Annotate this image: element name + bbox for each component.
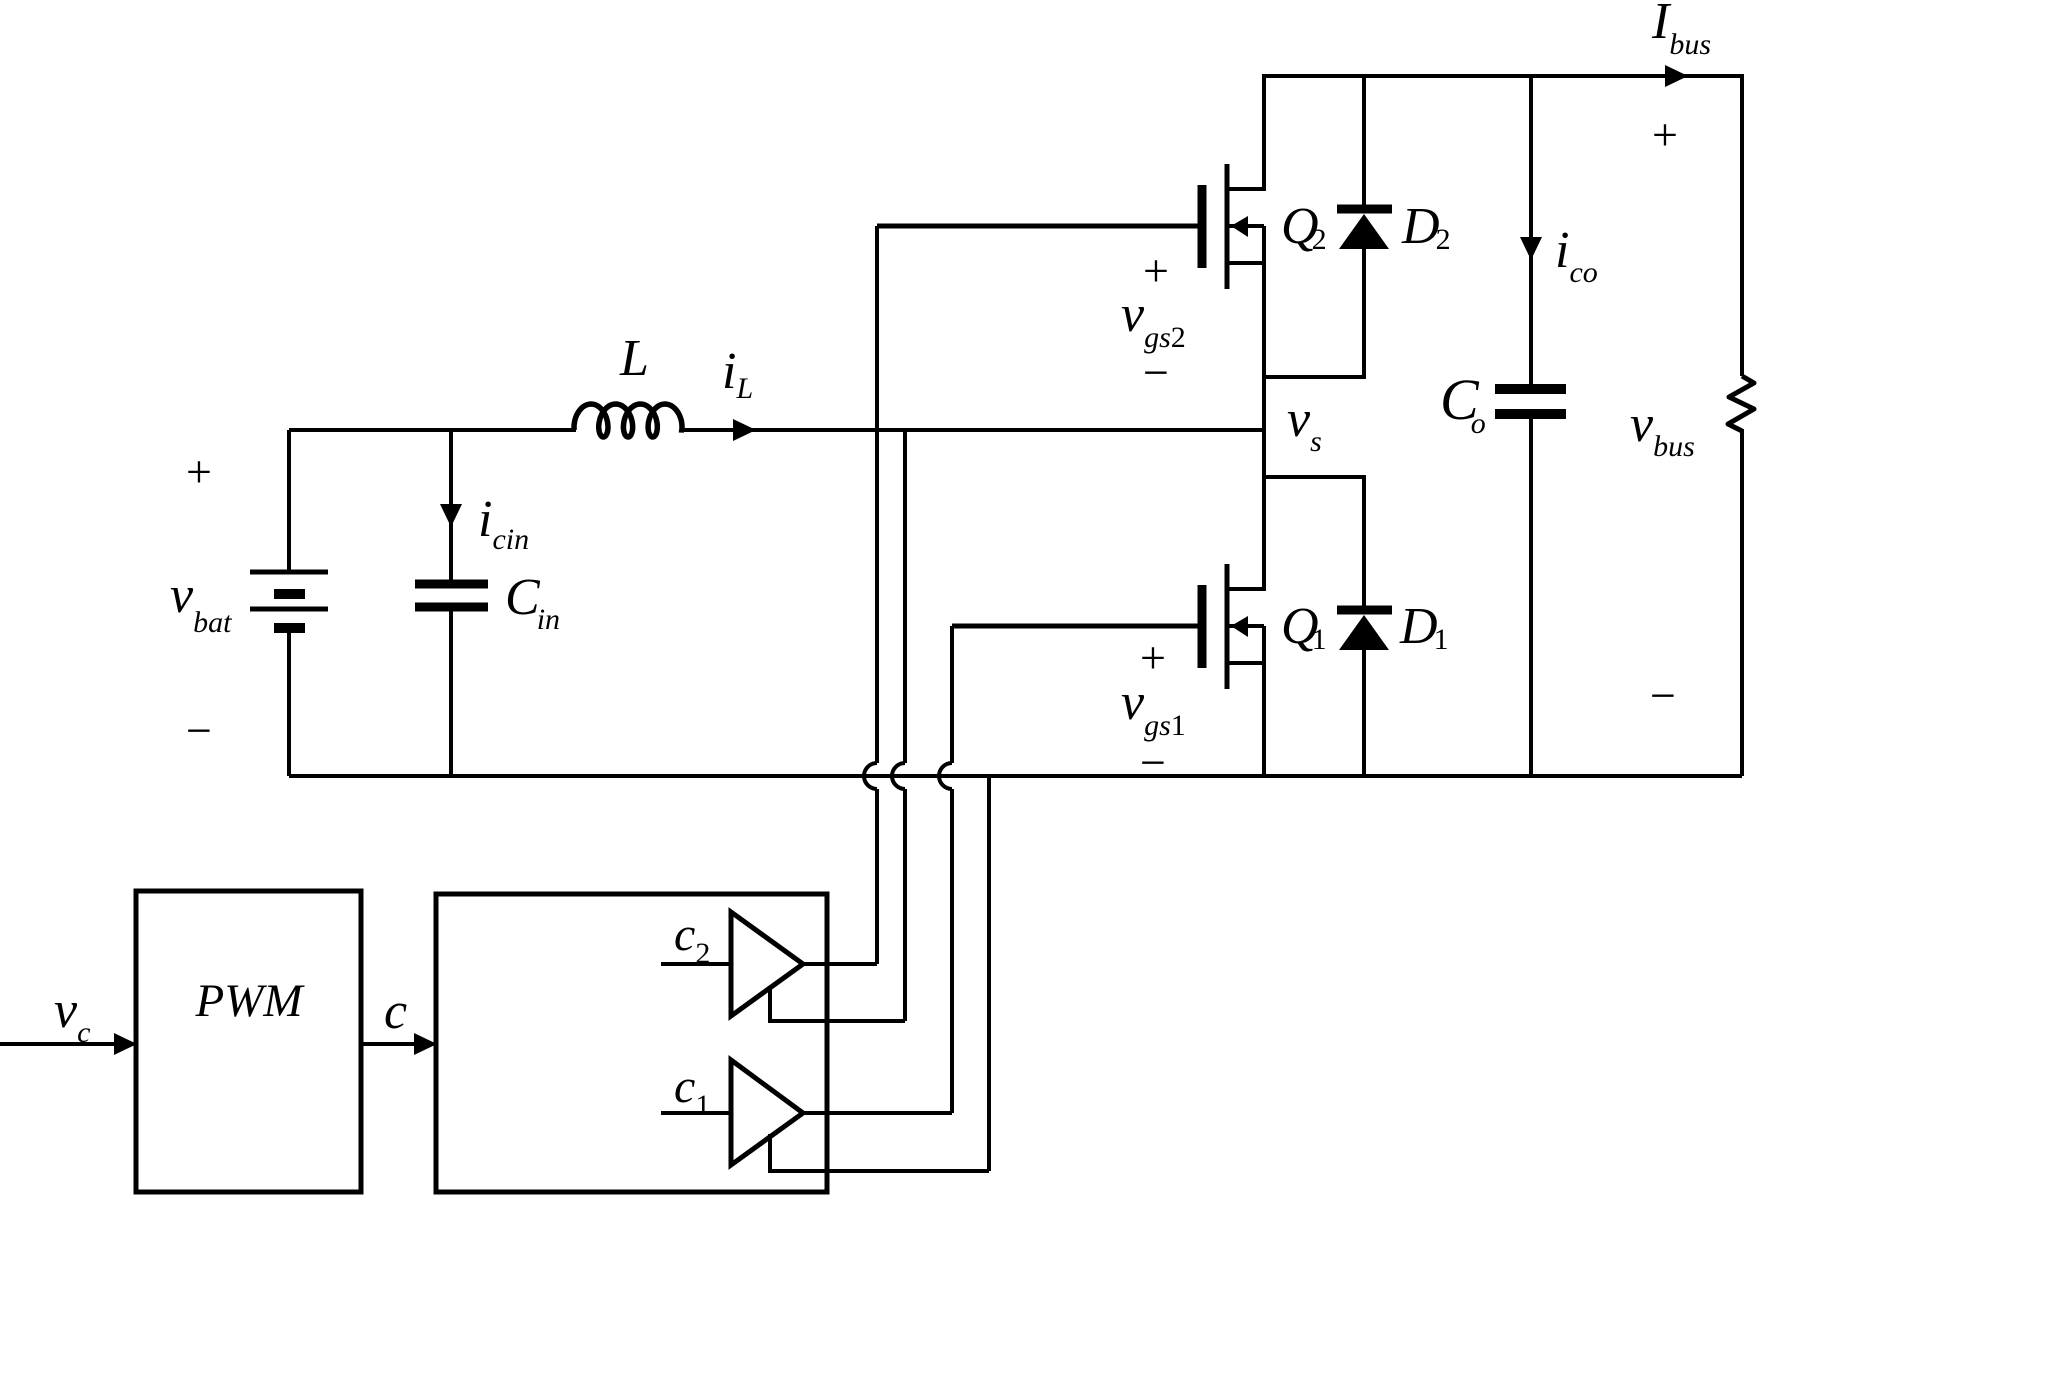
inductor L bbox=[574, 404, 684, 437]
i_cin current arrow bbox=[440, 504, 462, 527]
svg-text:c: c bbox=[384, 983, 407, 1040]
wire: c2 output to Q2 gate line bbox=[803, 962, 877, 966]
wire: top bus rail from Q2 drain to load bbox=[1264, 76, 1742, 376]
capacitor C_o branch wire top bbox=[1529, 76, 1533, 384]
wire: Q1 gate drive vertical (with hop over ground rail) bbox=[950, 626, 954, 763]
buffer c1 bbox=[731, 1060, 803, 1165]
svg-text:−: − bbox=[1650, 670, 1676, 721]
wire: c2 driver return vertical (v_s) with hop bbox=[903, 430, 907, 763]
wire: bottom ground rail bbox=[289, 774, 1742, 778]
svg-text:+: + bbox=[1143, 245, 1169, 296]
diode D1 bbox=[1264, 477, 1364, 608]
battery v_bat bbox=[287, 430, 291, 572]
svg-text:L: L bbox=[619, 330, 649, 387]
svg-text:PWM: PWM bbox=[194, 975, 305, 1027]
wire: C_in bottom to ground rail bbox=[449, 607, 453, 776]
wire: c1 driver return vertical to ground rail bbox=[987, 776, 991, 1171]
svg-text:+: + bbox=[186, 446, 212, 497]
wire: v_s vertical (Q2 source down to Q1 drain) bbox=[1262, 226, 1266, 591]
diode D2 bbox=[1362, 76, 1366, 207]
wire: c1 driver return bbox=[770, 1134, 989, 1171]
wire: C_o bottom to ground rail bbox=[1529, 414, 1533, 776]
driver block bbox=[436, 894, 827, 1192]
svg-text:−: − bbox=[186, 705, 212, 756]
transistor Q1 bbox=[952, 624, 1199, 629]
PWM block bbox=[136, 891, 361, 1192]
wire: c1 input bbox=[661, 1111, 731, 1115]
i_co current arrow bbox=[1520, 237, 1542, 260]
wire: inductor to switch node v_s bbox=[684, 428, 1264, 432]
buffer c2 bbox=[731, 912, 803, 1016]
wire: Q2 gate drive vertical (with hop over ground rail) bbox=[875, 226, 879, 763]
wire: c2 input bbox=[661, 962, 731, 966]
capacitor C_o bbox=[1495, 384, 1566, 394]
I_bus current arrow bbox=[1665, 65, 1688, 87]
wire: load resistor bottom to bottom rail bbox=[1740, 429, 1744, 776]
svg-text:−: − bbox=[1140, 737, 1166, 788]
wire: c signal PWM to driver bbox=[361, 1042, 414, 1046]
i_L current arrow bbox=[733, 419, 756, 441]
wire: v_c input bbox=[0, 1042, 114, 1046]
svg-text:−: − bbox=[1143, 347, 1169, 398]
wire: c2 driver return bbox=[770, 986, 905, 1021]
wire: c1 output to Q1 gate line bbox=[803, 1111, 952, 1115]
svg-text:+: + bbox=[1652, 109, 1678, 160]
wire: battery plus to inductor bbox=[289, 428, 576, 432]
capacitor C_in branch wire top bbox=[449, 430, 453, 580]
transistor Q2 bbox=[877, 224, 1199, 229]
wire: Q1 source down to ground rail bbox=[1262, 626, 1266, 776]
capacitor C_in bbox=[415, 580, 488, 589]
resistor R_load bbox=[1728, 376, 1754, 431]
